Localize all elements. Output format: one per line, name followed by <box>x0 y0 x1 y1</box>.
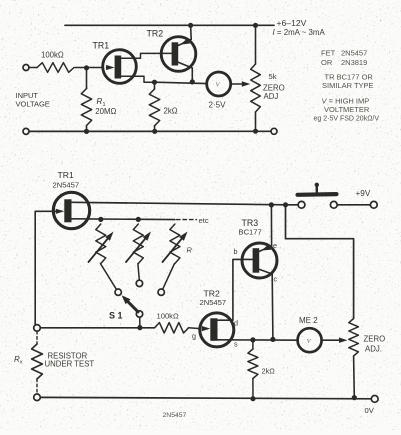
node TR2 emitter rail <box>188 23 193 28</box>
svg-text:g: g <box>192 332 196 341</box>
transistor TR1 JFET <box>103 50 137 84</box>
wire button to +9V terminal <box>337 204 370 206</box>
svg-text:FET: FET <box>321 49 336 58</box>
svg-text:OR: OR <box>321 58 333 67</box>
variable resistor range 3 <box>163 224 188 264</box>
svg-text:2kΩ: 2kΩ <box>164 107 178 116</box>
svg-text:etc: etc <box>199 216 209 225</box>
svg-text:BC177: BC177 <box>239 228 262 237</box>
svg-text:TR1: TR1 <box>58 170 74 180</box>
svg-text:I = 2mA ~ 3mA: I = 2mA ~ 3mA <box>273 28 326 37</box>
wire pot bottom <box>255 112 257 131</box>
wire TR1 gate down <box>35 211 53 324</box>
node pot bottom rail <box>352 395 357 400</box>
svg-text:SIMILAR TYPE: SIMILAR TYPE <box>322 81 374 90</box>
wire TR1 source line <box>72 218 175 221</box>
wire TR3 emitter up <box>270 205 272 246</box>
terminal Rx top <box>34 325 41 332</box>
node 2k top bottom circuit <box>250 337 255 342</box>
wire gate line to 100k <box>40 327 154 329</box>
wire TR2 drain to TR3 base <box>218 259 253 320</box>
transistor TR2 PNP <box>161 37 196 72</box>
svg-text:2kΩ: 2kΩ <box>262 367 276 376</box>
node S1 junction <box>137 325 142 330</box>
terminal input bottom <box>23 128 29 134</box>
svg-text:TR1: TR1 <box>93 41 110 51</box>
wire 2k top <box>154 82 156 89</box>
wire TR1 drain rail <box>72 202 286 205</box>
wire 0V rail bottom <box>40 397 370 398</box>
svg-text:2N3819: 2N3819 <box>341 58 367 67</box>
svg-text:0V: 0V <box>365 406 375 415</box>
wire pot top <box>255 25 257 64</box>
svg-text:s: s <box>234 340 238 349</box>
wire TR2 collector down <box>191 68 193 82</box>
svg-text:d: d <box>234 319 238 328</box>
wire 2k top bottom <box>252 340 254 349</box>
wire range3 to contact <box>163 264 175 290</box>
wire range1 to contact <box>100 264 116 290</box>
svg-text:2N5457: 2N5457 <box>200 298 227 307</box>
wire rail to button contact <box>286 204 299 206</box>
contact push button right <box>330 201 337 208</box>
svg-text:+6–12V: +6–12V <box>277 18 307 28</box>
wire R1 to 0V rail <box>86 126 88 132</box>
resistor 100k <box>37 63 74 73</box>
note voltmeter <box>314 97 380 123</box>
svg-text:5k: 5k <box>269 72 277 81</box>
svg-text:2·5V: 2·5V <box>209 101 227 110</box>
wire gate node down <box>86 68 88 89</box>
contact S1 position 2 <box>136 280 142 286</box>
terminal 0V <box>371 396 378 403</box>
node TR2 collector <box>190 79 195 84</box>
wire 100k to gate node <box>75 67 103 69</box>
label INPUT VOLTAGE <box>16 91 50 109</box>
node supply takeoff <box>283 202 288 207</box>
svg-text:ADJ.: ADJ. <box>365 345 382 354</box>
wire 0V rail top circuit <box>30 130 271 132</box>
svg-text:100kΩ: 100kΩ <box>41 51 64 60</box>
wire pot bottom to 0V <box>353 356 356 398</box>
svg-text:UNDER TEST: UNDER TEST <box>45 360 95 369</box>
node 2k bottom rail <box>250 396 255 401</box>
svg-text:VOLTMETER: VOLTMETER <box>324 105 370 114</box>
node TR3 collector meter <box>270 337 275 342</box>
terminal Rx bottom <box>34 394 41 401</box>
svg-text:+9V: +9V <box>356 189 371 198</box>
resistor 2k top circuit <box>149 89 159 126</box>
wire range2 to contact <box>138 264 139 281</box>
svg-text:R: R <box>187 246 193 255</box>
contact S1 position 3 <box>158 289 164 295</box>
wire Rx top dashed <box>36 331 38 344</box>
node pot top rail <box>253 23 258 28</box>
wire source line to meter <box>155 82 208 83</box>
wire source dashed etc <box>177 219 197 221</box>
node range resistor 1 <box>98 217 103 222</box>
node gate TR1 <box>84 65 89 70</box>
transistor TR3 PNP <box>242 243 277 278</box>
node R1 bottom <box>84 129 89 134</box>
wire S1 to gate line <box>139 317 141 327</box>
potentiometer 5k zero adj <box>251 64 261 112</box>
switch S1 wiper <box>122 295 143 317</box>
node pot bottom <box>253 129 258 134</box>
svg-text:S 1: S 1 <box>109 311 123 321</box>
node range resistor 2 <box>136 217 141 222</box>
note FET types <box>321 49 367 68</box>
potentiometer zero adj bottom <box>349 319 359 357</box>
wire supply to pot <box>286 205 354 319</box>
svg-text:b: b <box>234 247 238 256</box>
svg-text:ZERO: ZERO <box>364 335 386 344</box>
svg-text:100kΩ: 100kΩ <box>157 312 179 321</box>
svg-text:VOLTAGE: VOLTAGE <box>16 100 50 109</box>
note TR type <box>322 73 374 91</box>
wire 2k to 0V <box>252 379 254 399</box>
variable resistor range 1 <box>89 224 114 264</box>
svg-text:ME 2: ME 2 <box>299 316 318 325</box>
wire TR2 emitter to rail <box>190 25 193 39</box>
wire 100k to TR2 gate <box>189 327 201 330</box>
resistor 100k bottom <box>155 323 189 333</box>
node TR3 emitter rail <box>269 202 274 207</box>
wire 2k bottom <box>154 126 156 132</box>
resistor R1 20M <box>81 89 91 126</box>
wire TR1 source <box>121 76 154 82</box>
wire TR2 source line bottom <box>218 339 298 341</box>
transistor TR2 JFET bottom <box>200 313 234 347</box>
terminal +9V <box>370 201 377 208</box>
svg-text:2N5457: 2N5457 <box>163 412 187 419</box>
wire meter to pot wiper <box>231 81 251 86</box>
wire TR1 drain to TR2 base <box>121 53 171 58</box>
svg-text:2N5457: 2N5457 <box>341 49 367 58</box>
svg-text:e: e <box>273 241 277 250</box>
wire Rx bottom dashed <box>36 379 38 394</box>
wire input to resistor <box>29 67 37 69</box>
svg-text:eg 2·5V FSD 20kΩ/V: eg 2·5V FSD 20kΩ/V <box>314 116 380 123</box>
meter V top circuit <box>207 72 231 96</box>
resistor 2k bottom circuit <box>248 349 258 379</box>
resistor Rx under test <box>32 344 43 379</box>
svg-text:2N5457: 2N5457 <box>53 181 80 190</box>
terminal input top <box>23 65 29 71</box>
wire TR3 collector down <box>271 274 274 339</box>
node 2k bottom <box>152 129 157 134</box>
wire top supply rail <box>65 24 274 26</box>
push button <box>298 183 337 195</box>
meter ME2 <box>298 328 322 352</box>
node 2k top <box>152 80 157 85</box>
svg-text:20MΩ: 20MΩ <box>95 107 116 116</box>
svg-text:TR3: TR3 <box>242 218 259 228</box>
contact push button left <box>298 201 305 208</box>
terminal rail right <box>271 128 277 134</box>
svg-text:c: c <box>274 275 278 284</box>
wire ME2 to pot wiper <box>322 338 348 343</box>
svg-text:TR2: TR2 <box>204 289 220 299</box>
svg-text:TR2: TR2 <box>147 29 164 39</box>
variable resistor range 2 <box>126 224 151 264</box>
contact S1 position 1 <box>115 289 121 295</box>
svg-text:ADJ: ADJ <box>264 92 279 101</box>
transistor TR1 JFET bottom <box>53 192 89 228</box>
